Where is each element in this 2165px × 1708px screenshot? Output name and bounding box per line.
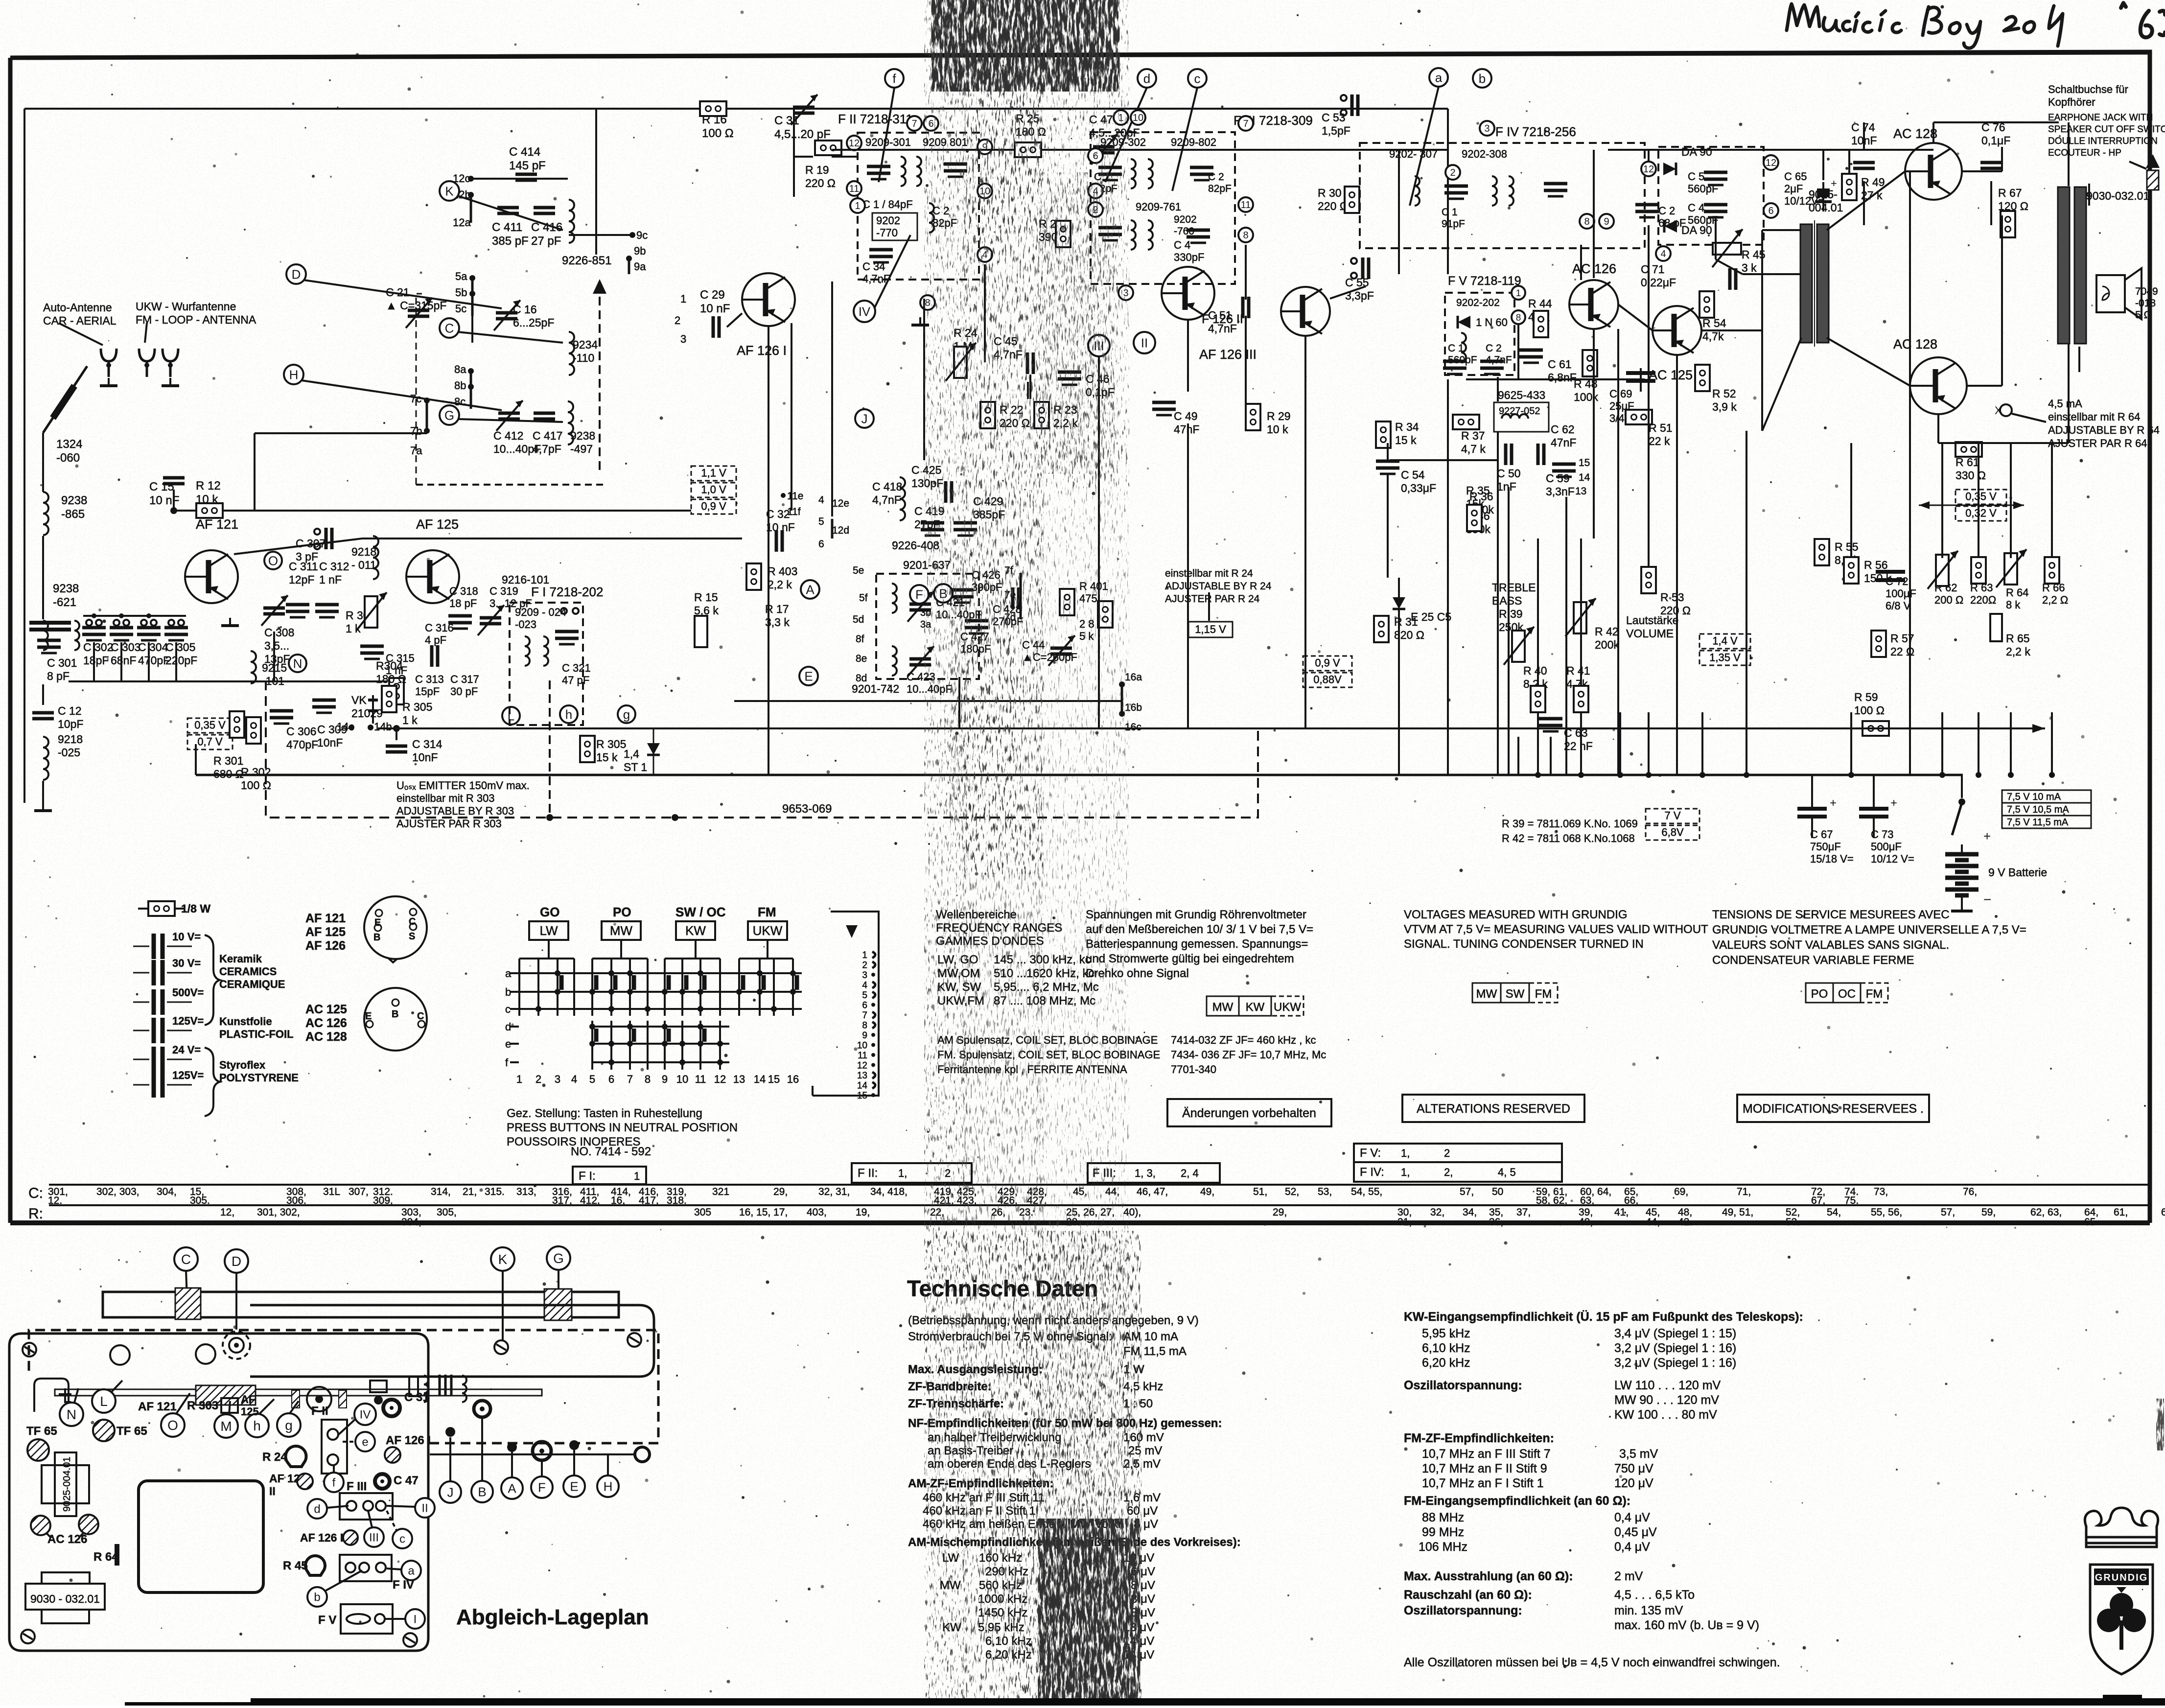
pin 8 [1238,228,1253,242]
ground [100,378,117,386]
wire [1387,475,1389,578]
wire [1848,150,1850,174]
svg-text:5b: 5b [455,286,467,299]
svg-text:Styroflex: Styroflex [219,1059,266,1071]
wire [471,278,474,316]
svg-text:d: d [1143,71,1150,86]
svg-text:1: 1 [516,1073,522,1085]
svg-text:0,88V: 0,88V [1313,674,1342,686]
svg-text:C 303: C 303 [111,641,140,654]
wire [458,419,563,422]
wire [767,940,768,959]
output transformer 9030-032.01 [2058,187,2070,344]
svg-text:F II: F II [311,1404,328,1418]
svg-text:1, 3,: 1, 3, [1135,1167,1156,1179]
svg-text:8a: 8a [454,363,466,375]
svg-text:1: 1 [1516,288,1521,299]
svg-text:7c: 7c [410,393,421,405]
wire [2051,712,2053,775]
ratio detector dashed box [1658,147,1764,245]
junction [146,613,151,618]
coil 9201-742 [892,646,897,676]
wire [832,156,858,158]
svg-text:315.: 315. [485,1186,505,1197]
svg-text:1,: 1, [898,1167,907,1179]
coil FIII tert [1131,220,1136,250]
wire [541,1461,543,1476]
holes in plate [110,1345,130,1365]
pulley AF121 [221,1398,238,1413]
capacitor C427 [965,621,988,633]
svg-text:F II:: F II: [858,1167,878,1180]
capacitor C309 [312,700,336,713]
svg-text:4,7k: 4,7k [1702,330,1724,343]
svg-text:1 nF: 1 nF [319,573,342,586]
svg-text:9218: 9218 [58,733,83,746]
svg-text:9: 9 [862,1030,867,1041]
capacitor C426 [950,590,974,603]
capacitor C5 [1704,172,1727,185]
svg-text:Schaltbuchse für: Schaltbuchse für [2048,83,2128,95]
svg-text:58, 62,: 58, 62, [1536,1195,1567,1206]
capacitor FV C1 [1443,361,1467,374]
band boxes MW KW UKW [1207,996,1239,1016]
handwritten number 63 [2121,3,2165,37]
wire [1121,684,1123,715]
svg-text:NO. 7414 - 592: NO. 7414 - 592 [571,1145,651,1158]
svg-text:R 305: R 305 [402,701,432,713]
node II [1134,332,1155,353]
wire [1746,431,1747,712]
coil 9238-865 [43,492,48,535]
svg-text:9238: 9238 [570,429,595,442]
svg-text:9238: 9238 [53,582,79,595]
svg-text:14: 14 [754,1073,766,1085]
svg-text:12,: 12, [220,1207,234,1218]
diode DA90 bottom [1664,220,1677,233]
svg-text:7a: 7a [410,445,422,457]
pin 6 [924,116,938,131]
svg-text:C 412: C 412 [493,429,523,442]
svg-text:2: 2 [862,960,867,971]
svg-text:SIGNAL. TUNING CONDENSER TU: SIGNAL. TUNING CONDENSER TURNED IN [1404,937,1644,951]
wire [1447,109,1449,274]
pin 11 [1238,197,1253,212]
svg-text:1: 1 [855,201,860,211]
wire [120,642,122,681]
svg-text:9209-301: 9209-301 [865,136,911,148]
svg-text:385 pF: 385 pF [492,234,529,248]
svg-text:R 42 = 7811 068 K.No.1068: R 42 = 7811 068 K.No.1068 [1502,832,1635,844]
svg-text:15 k: 15 k [1395,434,1417,446]
wire [303,280,502,308]
svg-text:MW: MW [610,923,633,938]
resistor R305 [389,678,404,704]
node F [910,585,929,604]
svg-text:R 39: R 39 [1499,608,1523,620]
svg-text:13: 13 [857,1071,867,1081]
transistor AF126 II [1162,267,1214,320]
svg-text:9209-802: 9209-802 [1171,136,1216,148]
svg-text:12: 12 [1766,158,1776,168]
svg-text:7,5 V 11,5 mA: 7,5 V 11,5 mA [2007,817,2069,828]
svg-text:220 Ω: 220 Ω [1660,604,1691,617]
target C31 [383,1400,400,1416]
resistor R304 [382,686,396,712]
board left notch [34,1379,69,1412]
capacitor C311 [286,605,309,617]
svg-text:R:: R: [28,1206,43,1222]
svg-text:R 53: R 53 [1660,591,1684,604]
svg-text:C 1: C 1 [1442,207,1458,218]
resistor R15 [695,616,707,647]
svg-text:PO: PO [1811,987,1828,1001]
screw on drive plate right [628,1333,641,1347]
capacitor C318 [448,616,472,629]
alignment point A [501,1477,523,1499]
junction [672,814,678,821]
svg-text:R 24: R 24 [262,1451,287,1464]
wire [1027,382,1029,399]
junction [393,725,400,732]
svg-text:C 2: C 2 [1208,171,1224,183]
board small caps [440,1375,451,1396]
junction [1958,798,1965,805]
None [123,620,129,626]
electrolytic C67 [1797,807,1827,811]
svg-text:68nF: 68nF [111,654,136,667]
svg-text:LW: LW [539,923,558,938]
svg-text:II: II [421,1502,428,1515]
wire [1933,121,2059,123]
wire [1617,329,1619,775]
svg-text:E: E [570,1479,578,1494]
svg-text:E: E [365,1011,372,1022]
junction [629,232,635,238]
svg-text:9b: 9b [634,245,646,257]
svg-text:D: D [232,1254,241,1269]
svg-text:KW-Eingangsempfindlichkeit (Ü.: KW-Eingangsempfindlichkeit (Ü. 15 pF am … [1404,1310,1803,1324]
svg-text:304,: 304, [157,1186,177,1197]
svg-text:750 μV: 750 μV [1614,1462,1653,1475]
diode DA90 top [1663,163,1676,175]
svg-text:AC 128: AC 128 [1893,126,1937,141]
pin 2 [1445,165,1460,180]
svg-text:220 Ω: 220 Ω [1318,200,1348,212]
wire [607,1454,609,1475]
wire [791,323,792,511]
svg-text:g: g [623,707,630,722]
svg-text:VOLTAGES MEASURED WITH GRUN: VOLTAGES MEASURED WITH GRUNDIG [1404,908,1627,921]
svg-text:C 301: C 301 [47,656,77,669]
svg-text:8f: 8f [856,633,864,645]
svg-text:7434- 036 ZF JF= 10,7 MHz, Mc: 7434- 036 ZF JF= 10,7 MHz, Mc [1171,1049,1326,1061]
wire [1330,286,1366,299]
capacitor FII C1 [867,166,890,179]
coil 9226-851 [569,200,574,243]
wire [1941,443,1943,558]
svg-text:12a: 12a [453,216,471,229]
svg-text:9625-433: 9625-433 [1498,389,1545,401]
svg-text:76,: 76, [1963,1186,1977,1197]
svg-text:Änderungen vorbehalten: Änderungen vorbehalten [1182,1106,1316,1120]
svg-text:10pF: 10pF [58,718,83,730]
dial scale thin bar [55,1389,542,1396]
alignment point O [161,1413,185,1437]
wire [573,1450,575,1475]
connector table F V [1354,1144,1562,1162]
wire [481,1418,483,1481]
svg-text:AF 126 III: AF 126 III [1199,347,1257,362]
svg-text:27 pF: 27 pF [531,234,561,248]
wire [595,109,597,255]
band boxes MW SW FM [1472,983,1501,1003]
Grundig logo shield [2090,1565,2153,1674]
svg-text:F III: F III [347,1480,367,1493]
svg-text:10/12 V=: 10/12 V= [1871,853,1914,865]
svg-text:CERAMICS: CERAMICS [219,965,277,978]
svg-text:b: b [314,1591,320,1604]
resistor R64 [2004,553,2017,585]
trimmer C47 [1093,147,1115,153]
svg-text:5a: 5a [455,270,467,282]
wire [1366,149,1448,151]
capacitor C414 [515,174,537,180]
tuning capacitor C21 [408,310,429,316]
svg-text:E 25 C5: E 25 C5 [1411,610,1451,623]
electrolytic C65 [1822,182,1824,211]
svg-text:b: b [1479,71,1486,86]
resistor R41 [1574,686,1588,712]
capacitor C71 [1730,268,1736,290]
svg-text:125: 125 [241,1405,259,1418]
wire [338,1419,356,1435]
svg-text:F: F [538,1480,546,1495]
svg-text:L: L [100,1394,108,1409]
trimmer C31 [793,107,815,113]
AF125 part [370,1380,387,1392]
svg-text:C:: C: [28,1185,43,1201]
wire [984,264,986,362]
svg-text:1,4 V: 1,4 V [1712,635,1738,647]
resistor R303 [365,596,377,628]
wire [1937,414,1939,443]
outer border frame [10,52,2150,1223]
wire [1762,229,1801,231]
wire [548,940,550,959]
coil 9234-110 [569,332,574,375]
svg-text:A: A [508,1481,516,1496]
wire [727,313,742,327]
svg-text:C 311: C 311 [289,560,318,573]
svg-text:100 Ω: 100 Ω [1854,704,1885,717]
resistor R48 [1583,350,1597,376]
svg-text:417,: 417, [639,1195,659,1206]
svg-text:C 312: C 312 [319,560,349,573]
capacitor C4 FIV [1704,205,1727,217]
None [1351,273,1357,279]
transistor AF125 [406,550,459,603]
svg-text:49, 51,: 49, 51, [1722,1207,1753,1218]
svg-text:125V=: 125V= [172,1015,204,1027]
alignment point c board [393,1529,412,1548]
coil FII tertiary [929,203,934,233]
svg-text:VK: VK [351,694,367,706]
telescopic antenna [43,366,87,433]
wire [1909,171,1911,775]
svg-text:C 65: C 65 [1784,170,1807,183]
svg-text:Oszillatorspannung:: Oszillatorspannung: [1404,1604,1522,1617]
wire [1466,378,1645,380]
alignment point II board [415,1498,435,1518]
capacitor C303 [110,628,133,640]
svg-text:9025-004.01: 9025-004.01 [62,1457,72,1512]
svg-text:6,8V: 6,8V [1661,826,1684,839]
wire [1245,245,1247,300]
None [561,608,567,614]
wire [831,519,834,538]
svg-text:3: 3 [862,970,867,981]
wire [145,323,147,343]
svg-text:F IV:: F IV: [1360,1166,1384,1179]
coil FV [1461,333,1466,362]
svg-text:AF 126 III: AF 126 III [300,1531,349,1544]
svg-text:8: 8 [1584,216,1589,227]
svg-text:49,: 49, [1200,1186,1214,1197]
node b [1473,69,1491,88]
module F III 7218-309 [1091,132,1235,284]
svg-text:einstellbar mit R 303: einstellbar mit R 303 [396,792,495,804]
wire [235,1273,237,1330]
alignment point III board [364,1527,384,1547]
resistor R28 [1098,601,1113,628]
pin 1 FV [1512,286,1525,300]
legend brace styroflex [205,1048,220,1116]
svg-text:F V 7218-119: F V 7218-119 [1448,274,1521,288]
resistor R39 [1512,631,1525,662]
svg-text:C 313: C 313 [415,673,444,685]
svg-text:46, 47,: 46, 47, [1137,1186,1168,1197]
wire [1873,775,1875,808]
wire [1537,538,1539,685]
svg-text:9: 9 [1604,216,1609,227]
pin 3 [1118,285,1133,300]
junction [2049,772,2055,778]
screw on drive plate [494,1340,508,1354]
battery 9V [1945,829,1991,911]
svg-text:12.: 12. [48,1195,62,1206]
svg-text:R 40: R 40 [1523,664,1547,677]
capacitor C429 [954,523,977,536]
svg-text:IV: IV [859,304,871,319]
svg-text:1,15 V: 1,15 V [1195,623,1226,635]
wire [1701,712,1703,775]
svg-text:4 pF: 4 pF [425,634,446,646]
pin 8 [920,295,935,310]
svg-text:7: 7 [911,118,917,129]
svg-text:10: 10 [857,1041,867,1051]
svg-text:9216-101: 9216-101 [502,573,549,586]
svg-text:einstellbar mit R 24: einstellbar mit R 24 [1165,568,1253,579]
None [376,1501,386,1511]
svg-text:f: f [505,1056,509,1069]
svg-text:5,95 kHz: 5,95 kHz [1422,1327,1470,1340]
svg-text:5e: 5e [853,565,864,576]
svg-text:7414-032 ZF JF= 460 kHz , kc: 7414-032 ZF JF= 460 kHz , kc [1171,1034,1316,1046]
svg-text:ADJUSTABLE BY R 64: ADJUSTABLE BY R 64 [2048,424,2160,436]
svg-text:82pF: 82pF [1208,183,1232,194]
svg-text:10,7 MHz an F III Stift 7: 10,7 MHz an F III Stift 7 [1422,1447,1551,1461]
svg-text:R 67: R 67 [1998,187,2022,199]
svg-text:C 4: C 4 [1174,239,1190,251]
None [96,620,102,626]
svg-text:32,: 32, [1430,1207,1444,1218]
node f [885,69,904,88]
wire [148,642,150,681]
node c [1188,69,1207,88]
alignment point M [214,1414,238,1438]
svg-text:N: N [293,656,303,671]
svg-text:69,: 69, [1674,1186,1688,1197]
svg-text:16b: 16b [1125,702,1142,713]
measuring point X [2000,404,2012,416]
svg-text:52,: 52, [1285,1186,1299,1197]
svg-text:OC: OC [1838,987,1856,1001]
svg-text:2,2 k: 2,2 k [2006,645,2030,658]
svg-text:0,35 V: 0,35 V [194,719,226,731]
svg-text:305.: 305. [190,1195,210,1206]
svg-text:57,: 57, [1941,1207,1955,1218]
svg-text:B: B [478,1484,486,1499]
svg-text:9025-: 9025- [1809,188,1838,201]
svg-text:1,5pF: 1,5pF [1322,124,1350,137]
svg-text:12: 12 [714,1073,726,1085]
node H [284,365,303,384]
svg-text:5: 5 [589,1073,595,1085]
capacitor C62 [1538,444,1544,465]
pin 10 [1131,110,1145,125]
capacitor FII C2 [944,164,967,177]
svg-text:412,: 412, [580,1195,600,1206]
svg-text:h: h [253,1418,261,1433]
tuning capacitor C44 [1050,648,1072,654]
svg-text:7701-340: 7701-340 [1171,1063,1216,1076]
svg-text:11: 11 [1241,200,1251,211]
svg-text:C 319: C 319 [489,585,518,597]
pin 9 [1599,214,1614,229]
svg-text:18 pF: 18 pF [449,597,477,609]
dial pointer piece [59,1388,71,1402]
svg-text:9238: 9238 [61,494,87,507]
node C [440,318,459,338]
svg-text:C 2: C 2 [1658,205,1675,217]
legend brace keramik [205,935,220,1025]
svg-text:ADJUSTABLE BY R 303: ADJUSTABLE BY R 303 [396,805,514,817]
junction [1646,772,1652,778]
wire [59,323,103,345]
svg-text:9209-761: 9209-761 [1136,201,1181,213]
svg-text:FM: FM [1535,987,1552,1001]
wire [511,1452,513,1477]
svg-text:c: c [505,1003,511,1015]
resistor R40 [1531,686,1545,712]
svg-text:0,9 V: 0,9 V [1315,657,1340,669]
svg-text:d: d [314,1503,320,1516]
pin 2 [1088,202,1103,217]
svg-text:3: 3 [680,333,686,345]
ground [221,618,239,626]
R303 drum [307,1387,331,1411]
